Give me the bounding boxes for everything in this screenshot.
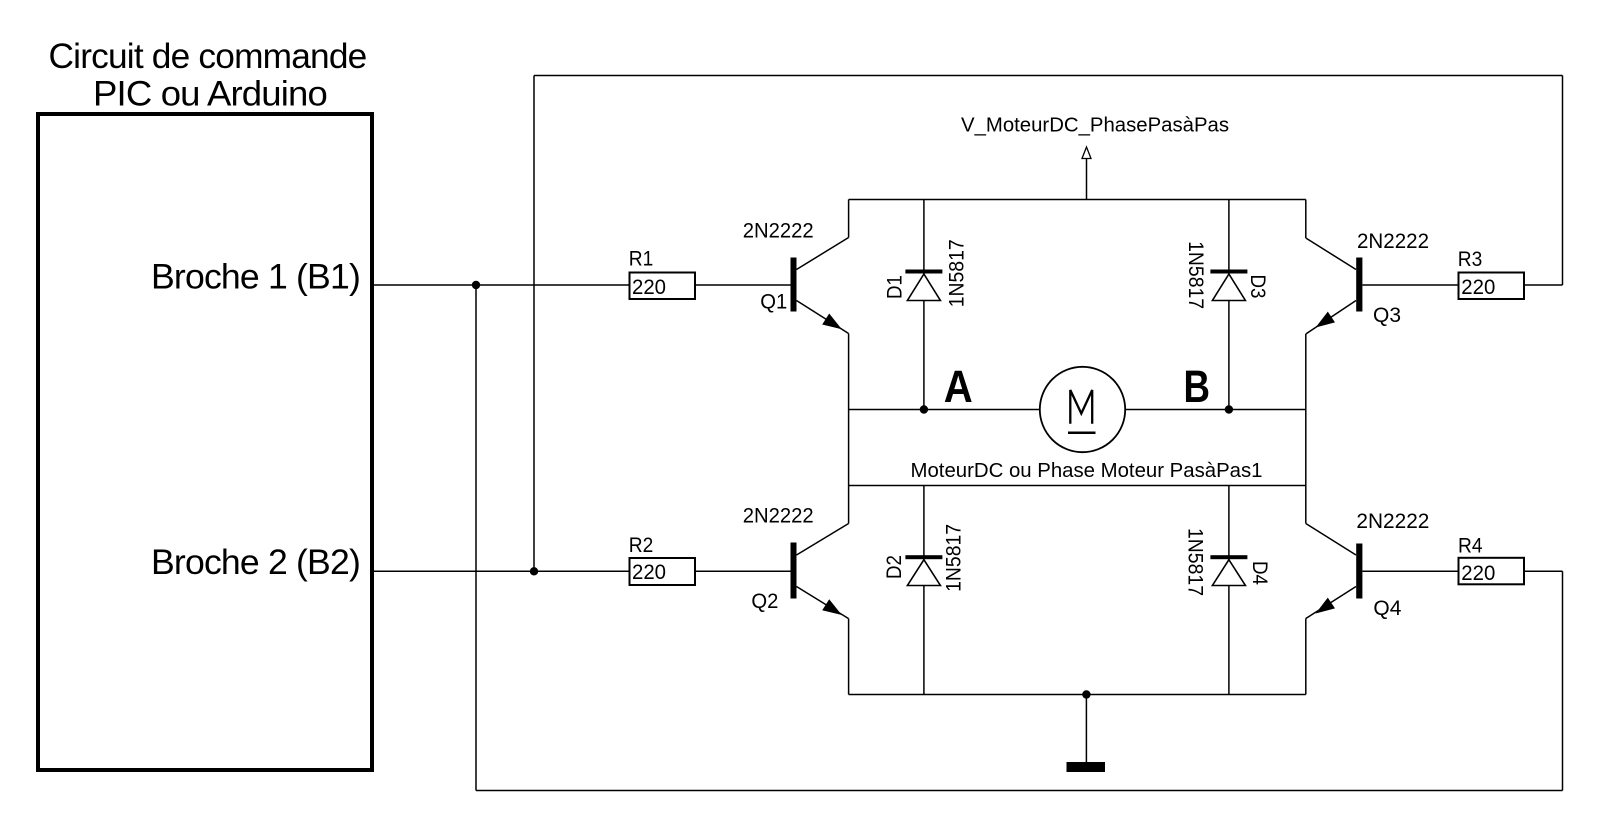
svg-text:Q3: Q3 <box>1373 304 1401 327</box>
svg-text:Broche 2 (B2): Broche 2 (B2) <box>151 543 360 582</box>
svg-text:V_MoteurDC_PhasePasàPas: V_MoteurDC_PhasePasàPas <box>961 115 1229 137</box>
svg-text:Q2: Q2 <box>751 590 778 613</box>
svg-text:1N5817: 1N5817 <box>1184 241 1207 309</box>
svg-text:2N2222: 2N2222 <box>743 219 814 242</box>
svg-text:2N2222: 2N2222 <box>1356 510 1429 533</box>
svg-text:R1: R1 <box>629 248 654 271</box>
svg-text:1N5817: 1N5817 <box>943 524 966 592</box>
svg-text:Q4: Q4 <box>1373 597 1401 620</box>
svg-text:R2: R2 <box>629 534 654 557</box>
svg-text:MoteurDC ou Phase Moteur PasàP: MoteurDC ou Phase Moteur PasàPas1 <box>911 460 1263 482</box>
svg-text:220: 220 <box>1461 562 1495 585</box>
svg-text:Q1: Q1 <box>760 291 787 314</box>
svg-text:B: B <box>1184 361 1211 412</box>
svg-text:Circuit de commande: Circuit de commande <box>49 37 367 76</box>
svg-text:D3: D3 <box>1246 275 1269 299</box>
svg-text:220: 220 <box>632 276 666 299</box>
svg-text:D4: D4 <box>1248 561 1271 585</box>
svg-text:R3: R3 <box>1458 248 1483 271</box>
svg-text:1N5817: 1N5817 <box>945 239 968 307</box>
svg-text:220: 220 <box>632 561 666 584</box>
svg-text:D2: D2 <box>883 555 906 579</box>
svg-text:R4: R4 <box>1458 534 1483 557</box>
svg-text:D1: D1 <box>884 275 907 299</box>
svg-text:A: A <box>944 361 973 412</box>
svg-text:2N2222: 2N2222 <box>743 504 814 527</box>
svg-text:Broche 1 (B1): Broche 1 (B1) <box>151 257 360 296</box>
svg-text:1N5817: 1N5817 <box>1183 528 1206 596</box>
svg-text:PIC ou Arduino: PIC ou Arduino <box>93 75 327 114</box>
svg-text:2N2222: 2N2222 <box>1357 230 1429 253</box>
svg-text:220: 220 <box>1461 276 1495 299</box>
